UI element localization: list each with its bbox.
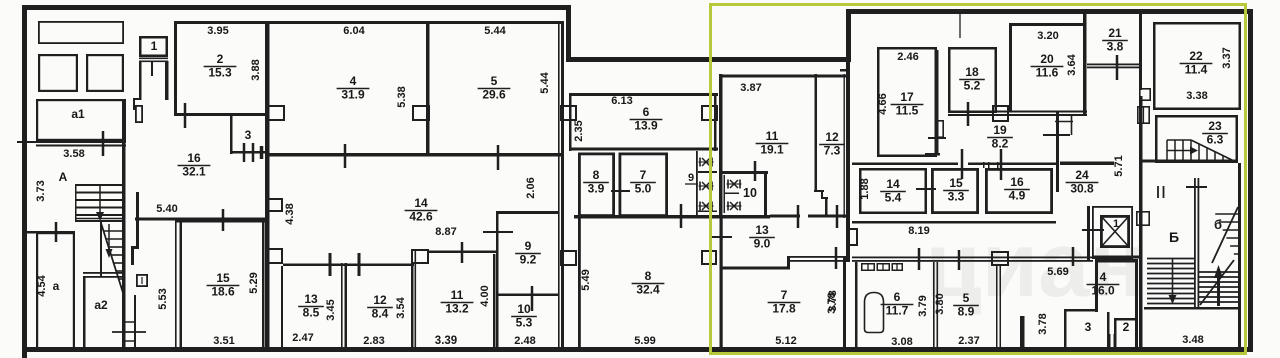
door tick room 12	[358, 253, 361, 276]
fixture room10 bottom	[727, 202, 742, 211]
stairwell divider wall	[1194, 178, 1199, 307]
room 4 label	[337, 74, 370, 102]
room 2 walls	[1114, 318, 1138, 351]
room 8 big label	[632, 269, 665, 297]
svg-text:5.2: 5.2	[964, 79, 981, 93]
room 8-3.9 label	[583, 168, 609, 196]
room 9 walls	[496, 211, 558, 297]
dim 3.45 vertical	[325, 299, 337, 320]
svg-text:7.3: 7.3	[824, 144, 841, 158]
svg-text:3.20: 3.20	[1037, 30, 1058, 42]
dim 5.44 top	[484, 25, 506, 37]
dim 3.37 vertical	[1221, 47, 1233, 68]
room 13 label	[298, 292, 324, 320]
room 4-16.0 right wall	[1135, 259, 1138, 351]
outer wall left	[22, 5, 27, 358]
svg-text:3.37: 3.37	[1221, 47, 1233, 68]
room 12 label	[367, 293, 393, 321]
room 17 box	[878, 48, 936, 156]
shaft box A	[1138, 107, 1149, 123]
room 22 label	[1180, 49, 1213, 77]
duct wall W2b	[131, 192, 139, 265]
pilaster bar	[1020, 316, 1025, 351]
room 20 label	[1031, 52, 1064, 80]
pillar corridor bottom	[992, 252, 1008, 265]
room 16 label	[178, 151, 211, 179]
room 7 top wall left part	[722, 267, 790, 270]
fixture room10 top	[727, 180, 742, 189]
svg-text:3.78: 3.78	[1037, 313, 1049, 334]
wall above room a with door	[27, 231, 75, 234]
bathtub room 6	[865, 293, 884, 333]
room 6 label	[630, 105, 663, 133]
room 14-5.4 box	[860, 169, 926, 213]
svg-text:18.6: 18.6	[211, 285, 235, 299]
room 15-3.3 label	[943, 176, 969, 204]
door tick room 16	[222, 209, 225, 231]
dim 2.47	[292, 332, 313, 344]
svg-text:a2: a2	[94, 298, 108, 312]
svg-text:5.71: 5.71	[1113, 155, 1125, 176]
svg-text:31.9: 31.9	[341, 88, 365, 102]
room 2 label	[204, 52, 237, 80]
room 6-11.7 label	[881, 290, 914, 318]
corridor bottom wall	[852, 257, 1093, 262]
room 21 bottom wall	[1087, 64, 1141, 69]
dim 5.40	[156, 203, 177, 215]
entry box 1	[140, 37, 167, 56]
svg-text:6.3: 6.3	[1207, 133, 1224, 147]
svg-text:4.00: 4.00	[479, 285, 491, 306]
svg-text:a1: a1	[71, 107, 85, 121]
svg-text:6: 6	[643, 105, 650, 119]
room 12 walls	[341, 263, 414, 348]
door tick rooms 8-7	[611, 190, 630, 192]
svg-text:б: б	[1214, 217, 1222, 232]
svg-text:3.8: 3.8	[1107, 40, 1124, 54]
svg-text:4: 4	[350, 74, 357, 88]
svg-text:6.04: 6.04	[343, 25, 365, 37]
wall nib left of room 17	[840, 69, 848, 72]
door tick x836	[835, 247, 838, 269]
room 16 bottom wall	[135, 218, 266, 221]
room 7 step wall	[787, 256, 790, 269]
outer wall step up at x848	[846, 9, 851, 62]
radiator boxes under corridor	[862, 264, 903, 271]
svg-text:22: 22	[1189, 49, 1203, 63]
wall W4	[846, 9, 850, 262]
wall right of stairs W2	[122, 99, 126, 352]
outer wall recessed middle section	[566, 57, 851, 62]
wall x720 vertical	[720, 217, 723, 348]
room 8-3.9 box	[579, 154, 613, 216]
room 21 label	[1102, 26, 1128, 54]
rooms 4-5 bottom wall	[267, 153, 563, 157]
dim 4.66 vertical	[877, 93, 889, 114]
door tick entry	[151, 62, 153, 76]
entry strip notch	[133, 98, 141, 110]
room 19 left wall	[925, 50, 943, 156]
door tick room 16-4.9	[1000, 149, 1003, 180]
room 15 walls	[175, 220, 265, 348]
dim 4.38 vertical	[284, 203, 296, 224]
svg-text:8.4: 8.4	[372, 307, 389, 321]
svg-text:11.6: 11.6	[1036, 66, 1059, 80]
svg-text:15: 15	[216, 271, 230, 285]
dim 5.53 vertical	[157, 288, 169, 309]
door tick shaft	[112, 331, 146, 333]
window box right	[87, 55, 123, 91]
room 6 left wall	[569, 93, 572, 151]
room 18 label	[959, 65, 985, 93]
room a1 bottom double wall	[36, 141, 126, 147]
svg-text:9: 9	[688, 172, 694, 184]
outer wall top-left section	[22, 5, 570, 10]
svg-text:3.79: 3.79	[917, 295, 929, 316]
elevator cab box with cross	[1101, 216, 1129, 247]
room 19 label	[987, 123, 1013, 151]
svg-text:5.0: 5.0	[635, 182, 652, 196]
stairwell upper flight diagonal	[1212, 207, 1240, 263]
svg-text:3.48: 3.48	[1182, 334, 1203, 346]
duct wall W2b upper notch	[136, 106, 142, 122]
door tick x681	[680, 204, 683, 228]
wall W3 right of room 5	[558, 21, 564, 348]
svg-text:4.38: 4.38	[284, 203, 296, 224]
room 9 wc label	[685, 172, 698, 184]
svg-text:5.3: 5.3	[516, 316, 533, 330]
svg-text:3.39: 3.39	[435, 335, 457, 347]
room 23 label	[1202, 119, 1228, 147]
door tick room 21	[1116, 55, 1119, 80]
svg-text:5.99: 5.99	[634, 335, 655, 347]
svg-text:7: 7	[781, 288, 788, 302]
pillar on W1 lower	[267, 249, 282, 263]
svg-text:21: 21	[1108, 26, 1122, 40]
svg-text:3.08: 3.08	[891, 336, 912, 348]
duct shaft wall bottom	[134, 295, 136, 350]
svg-text:32.4: 32.4	[636, 283, 660, 297]
stairwell wall notch	[1140, 89, 1150, 100]
svg-text:16.0: 16.0	[1091, 284, 1115, 298]
svg-text:3.80: 3.80	[934, 293, 946, 314]
stair hatch room 23	[1167, 140, 1234, 161]
svg-text:19.1: 19.1	[760, 143, 784, 157]
svg-text:5.69: 5.69	[1047, 266, 1068, 278]
door marks stairwell top-left	[1158, 186, 1164, 198]
room 11-19.1 label	[756, 129, 789, 157]
door tick x837 upper	[836, 205, 839, 228]
room 6 top wall	[569, 93, 718, 96]
dim 3.87	[740, 82, 761, 94]
shaft rungs	[124, 322, 136, 341]
door tick room 14-5.4	[916, 188, 936, 190]
svg-text:3.78: 3.78	[826, 292, 838, 313]
svg-text:8.87: 8.87	[435, 226, 456, 238]
svg-text:4: 4	[1100, 270, 1107, 284]
svg-text:5.29: 5.29	[248, 272, 260, 293]
room 6 right wall	[714, 93, 717, 151]
door tick left outer wall	[17, 141, 36, 143]
stair flight 2 left stairwell with diagonal	[75, 219, 124, 297]
dim 3.54 vertical	[395, 296, 407, 318]
svg-text:14: 14	[414, 196, 428, 210]
wall left of room 11	[719, 74, 723, 217]
room 5-8.9 label	[953, 291, 979, 319]
svg-text:5.40: 5.40	[156, 203, 177, 215]
svg-text:2.37: 2.37	[958, 335, 979, 347]
door tick room 17	[928, 137, 946, 139]
svg-text:24: 24	[1075, 168, 1089, 182]
svg-text:3.45: 3.45	[325, 299, 337, 320]
svg-text:2.83: 2.83	[363, 335, 384, 347]
dim 3.78 vertical hall	[1037, 313, 1049, 334]
svg-text:8.19: 8.19	[908, 225, 929, 237]
svg-text:12: 12	[373, 293, 387, 307]
room 3 label	[1085, 320, 1092, 334]
room 5 label	[478, 74, 511, 102]
elevator label 1	[1113, 218, 1119, 230]
svg-text:3: 3	[245, 128, 252, 142]
small rooms bottom wall	[574, 215, 770, 219]
svg-text:9.0: 9.0	[754, 237, 771, 251]
dim 5.12	[775, 335, 796, 347]
svg-text:9.2: 9.2	[520, 253, 537, 267]
shaft box B	[1137, 212, 1149, 225]
wall y215 to W4	[808, 215, 850, 218]
dim 4.54 vertical	[36, 274, 48, 296]
svg-text:8: 8	[645, 269, 652, 283]
door tick room 11	[461, 242, 464, 263]
svg-text:29.6: 29.6	[482, 88, 506, 102]
door tick x798	[797, 205, 800, 228]
rooms 13-12 top wall	[283, 264, 414, 267]
entry box double line	[139, 58, 168, 63]
svg-text:42.6: 42.6	[409, 210, 433, 224]
room 21 right wall	[1139, 13, 1142, 90]
room 10 wc inner	[724, 175, 740, 213]
wall under elevator	[1092, 256, 1139, 259]
fixture wc top	[699, 158, 714, 167]
dim 3.39	[435, 335, 457, 347]
room a	[37, 233, 74, 349]
svg-text:8.9: 8.9	[958, 305, 975, 319]
wall W5	[1056, 112, 1059, 192]
room 7 top double wall right	[790, 256, 846, 262]
door tick W5	[1043, 134, 1070, 136]
room a2	[83, 276, 108, 351]
svg-text:8.2: 8.2	[992, 137, 1009, 151]
door tick room 4	[344, 144, 347, 168]
pillar room 6 right	[702, 106, 717, 120]
dim 3.78 vertical left	[826, 292, 838, 313]
svg-text:8.5: 8.5	[303, 306, 320, 320]
stairwell left wall	[1139, 96, 1143, 352]
svg-text:3.38: 3.38	[1186, 90, 1207, 102]
svg-text:3.51: 3.51	[213, 335, 234, 347]
pillar on W3 lower	[561, 251, 576, 265]
svg-text:12: 12	[825, 130, 839, 144]
svg-text:8: 8	[593, 168, 600, 182]
svg-text:5: 5	[491, 74, 498, 88]
row wall y215 right part	[770, 215, 800, 218]
vent box with cross	[137, 275, 147, 286]
room 10 label	[511, 302, 537, 330]
room 15 label	[207, 271, 240, 299]
dim 2.35 vertical	[573, 120, 585, 141]
svg-text:А: А	[59, 170, 68, 184]
balcony rectangle top-left	[39, 22, 123, 43]
elevator lobby wall	[1087, 206, 1090, 260]
room 19 bottom wall	[852, 163, 1056, 166]
svg-text:5.49: 5.49	[580, 269, 592, 290]
svg-text:11.4: 11.4	[1185, 63, 1208, 77]
rooms 4-5 top wall	[267, 21, 563, 24]
svg-text:4.9: 4.9	[1009, 189, 1026, 203]
door bars rooms 3-2	[1108, 334, 1117, 351]
corridor top wall	[852, 221, 1056, 224]
svg-text:13.2: 13.2	[445, 302, 469, 316]
door tick corridor x959	[958, 250, 961, 270]
room 14-5.4 label	[880, 177, 906, 205]
door tick corridor x919	[918, 248, 921, 270]
room 9 label	[515, 239, 541, 267]
svg-text:1: 1	[151, 39, 158, 53]
room 7-5.0 label	[630, 168, 656, 196]
room 17 label	[891, 90, 924, 118]
svg-text:16: 16	[1010, 175, 1024, 189]
room A label	[59, 170, 68, 184]
room 6-11.7 left wall	[855, 262, 858, 348]
pillar x1000	[993, 106, 1008, 121]
dim 3.79 vertical	[917, 295, 929, 316]
main wall W1	[265, 21, 270, 352]
pillar on W3 upper	[561, 106, 576, 120]
wc shaft wall	[696, 151, 698, 215]
svg-text:3: 3	[1085, 320, 1092, 334]
svg-text:17.8: 17.8	[772, 302, 796, 316]
room a2 top double wall	[83, 272, 124, 278]
stairwell right wall	[1238, 163, 1241, 352]
svg-text:4.66: 4.66	[877, 93, 889, 114]
svg-text:2: 2	[217, 52, 224, 66]
rooms 11-12 top wall	[721, 75, 847, 78]
wall between rooms 4 and 5	[426, 21, 430, 156]
green highlight rectangle	[711, 5, 1246, 354]
room 10 left wall	[496, 297, 499, 348]
shaft boxes x983	[983, 162, 999, 168]
dim 5.44 vertical	[539, 71, 551, 93]
door tick room 10	[531, 286, 534, 311]
window box left	[39, 55, 77, 91]
room 16-4.9 box	[986, 169, 1051, 212]
svg-text:17: 17	[900, 90, 914, 104]
stairwell lower flights hatch	[1144, 259, 1238, 310]
watermark cian	[925, 214, 1145, 316]
room 3 small walls	[230, 116, 266, 154]
room 3 walls	[1064, 309, 1110, 351]
svg-text:2.46: 2.46	[897, 51, 918, 63]
door tick room 18	[967, 102, 970, 126]
room 10 wc top wall	[719, 171, 768, 174]
svg-text:5.4: 5.4	[885, 191, 902, 205]
svg-text:3.64: 3.64	[1066, 53, 1078, 75]
svg-text:3.73: 3.73	[35, 180, 47, 201]
elevator outer box	[1093, 207, 1132, 258]
svg-text:a: a	[53, 279, 60, 293]
svg-text:14: 14	[886, 177, 900, 191]
svg-text:3.3: 3.3	[948, 190, 965, 204]
dim 3.51	[213, 335, 234, 347]
svg-text:18: 18	[965, 65, 979, 79]
dim 5.71 vertical	[1113, 155, 1125, 176]
dim 5.29 vertical	[248, 272, 260, 293]
dim 8.87	[435, 226, 456, 238]
svg-text:10: 10	[743, 186, 757, 200]
outer wall right	[1248, 9, 1253, 352]
room 7-17.8 right wall	[843, 256, 846, 348]
room 15-3.3 box	[932, 169, 977, 212]
svg-text:7: 7	[640, 168, 647, 182]
svg-text:Б: Б	[1169, 229, 1179, 245]
room a1	[37, 100, 125, 140]
svg-text:2.35: 2.35	[573, 120, 585, 141]
room 7-5.0 box	[620, 154, 667, 216]
svg-text:6.13: 6.13	[611, 95, 632, 107]
room 3 small label	[245, 128, 252, 142]
room 2 label	[1123, 320, 1130, 334]
room 12-7.3 left wall stepped	[814, 74, 828, 215]
svg-text:11.5: 11.5	[896, 104, 919, 118]
wall nib W5 to lobby	[1060, 162, 1114, 166]
svg-text:3.87: 3.87	[740, 82, 761, 94]
pillar on W1 mid	[267, 199, 282, 211]
pillar on W4	[848, 229, 858, 245]
svg-text:3.54: 3.54	[395, 296, 407, 318]
dim 1.88 vertical	[859, 178, 871, 199]
room 2 walls	[174, 21, 267, 116]
dim 2.37	[958, 335, 979, 347]
outer wall step down at x569	[566, 5, 571, 62]
svg-text:5.12: 5.12	[775, 335, 796, 347]
svg-text:3.58: 3.58	[63, 148, 84, 160]
svg-text:5.53: 5.53	[157, 288, 169, 309]
dim 6.13	[611, 95, 632, 107]
dim 4.00 vertical	[479, 285, 491, 306]
stair flight 1 left stairwell with down arrow	[75, 185, 124, 222]
room 10 wc label	[743, 186, 757, 200]
svg-text:2.47: 2.47	[292, 332, 313, 344]
svg-text:13: 13	[304, 292, 318, 306]
svg-text:9: 9	[525, 239, 532, 253]
svg-text:3.88: 3.88	[250, 59, 262, 80]
door tick corridor x1073	[1072, 247, 1075, 266]
svg-text:4.54: 4.54	[36, 274, 48, 296]
room 8 big left wall	[578, 217, 581, 348]
dim 2.46	[897, 51, 918, 63]
svg-text:16: 16	[187, 151, 201, 165]
pillar left of x720 wall	[702, 251, 716, 264]
dim 3.95	[207, 25, 228, 37]
stairwell top wall	[1141, 160, 1238, 163]
room 14 label	[405, 196, 438, 224]
dim 3.78 vertical room7	[827, 290, 839, 311]
wall between 5 and hall	[996, 266, 1001, 351]
room 24 label	[1066, 168, 1099, 196]
svg-text:5.44: 5.44	[539, 71, 551, 93]
door ticks room 3	[244, 143, 262, 162]
svg-text:3.9: 3.9	[588, 182, 605, 196]
